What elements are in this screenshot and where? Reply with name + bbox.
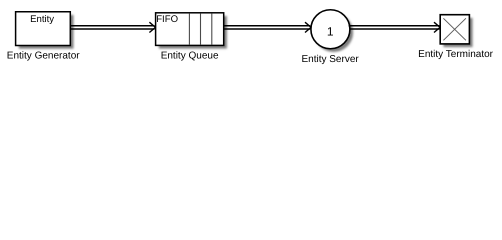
entity generator block shadow xyxy=(19,15,74,49)
entity queue block xyxy=(156,13,224,46)
svg-text:Entity Queue: Entity Queue xyxy=(161,50,219,61)
svg-text:Entity Server: Entity Server xyxy=(301,54,359,65)
arrowhead into terminator xyxy=(434,22,440,32)
svg-text:Entity Terminator: Entity Terminator xyxy=(418,49,494,60)
wire: entity path queue to server (double line) xyxy=(224,26,310,29)
entity server block xyxy=(311,10,350,49)
svg-text:Entity Generator: Entity Generator xyxy=(7,50,80,61)
entity queue block shadow xyxy=(159,16,227,49)
svg-text:Entity: Entity xyxy=(30,14,54,25)
svg-text:FIFO: FIFO xyxy=(156,14,178,25)
arrowhead into server xyxy=(305,22,311,32)
queue slot divider 1 xyxy=(188,14,190,45)
svg-text:1: 1 xyxy=(327,25,334,39)
arrowhead into queue xyxy=(149,22,155,32)
wire: entity path generator to queue (double line) xyxy=(70,26,154,29)
terminator X mark xyxy=(443,18,466,40)
queue slot divider 3 xyxy=(211,14,213,45)
entity server block shadow xyxy=(314,13,353,52)
entity terminator block shadow xyxy=(443,18,472,47)
entity terminator block xyxy=(440,15,469,44)
wire: entity path server to terminator (double line) xyxy=(349,26,440,29)
queue slot divider 2 xyxy=(200,14,202,45)
entity generator block U1 xyxy=(16,12,71,46)
